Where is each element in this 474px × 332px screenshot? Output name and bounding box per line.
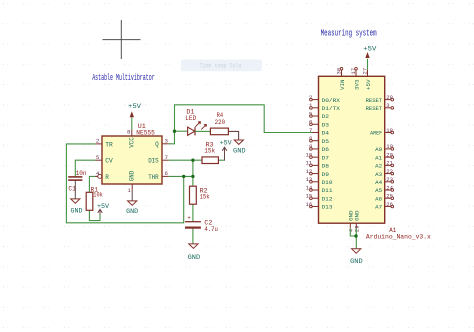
svg-text:6: 6	[309, 119, 312, 126]
svg-text:A3: A3	[375, 171, 383, 178]
svg-text:3: 3	[386, 102, 389, 109]
svg-text:GND: GND	[126, 208, 138, 215]
svg-text:23: 23	[386, 176, 393, 183]
svg-text:220: 220	[215, 119, 226, 126]
svg-text:+5V: +5V	[97, 203, 109, 210]
svg-text:14: 14	[306, 184, 313, 191]
svg-text:15k: 15k	[200, 194, 210, 201]
svg-text:2: 2	[96, 138, 100, 145]
svg-text:+5V: +5V	[365, 79, 372, 90]
svg-text:30: 30	[335, 67, 342, 74]
svg-text:DIS: DIS	[148, 158, 159, 165]
svg-text:A1: A1	[375, 154, 383, 161]
svg-text:10k: 10k	[93, 192, 103, 199]
svg-text:D11: D11	[322, 187, 334, 194]
svg-text:D10: D10	[322, 179, 334, 186]
svg-text:20: 20	[386, 151, 393, 158]
svg-text:24: 24	[386, 184, 393, 191]
svg-text:16: 16	[306, 201, 313, 208]
svg-text:D0/RX: D0/RX	[322, 97, 341, 104]
svg-text:D4: D4	[322, 130, 330, 137]
svg-text:D2: D2	[322, 113, 330, 120]
svg-text:6: 6	[165, 170, 169, 177]
svg-text:12: 12	[306, 168, 313, 175]
svg-text:1: 1	[127, 187, 131, 194]
svg-text:Astable Multivibrator: Astable Multivibrator	[92, 73, 155, 83]
svg-text:4: 4	[96, 170, 100, 177]
svg-text:R4: R4	[217, 112, 224, 119]
svg-text:D5: D5	[322, 138, 330, 145]
svg-text:26: 26	[386, 201, 393, 208]
svg-text:5: 5	[96, 154, 100, 161]
svg-text:GND: GND	[233, 147, 246, 154]
svg-text:D3: D3	[322, 121, 330, 128]
svg-text:17: 17	[350, 68, 357, 75]
svg-text:A4: A4	[375, 179, 383, 186]
svg-text:A2: A2	[375, 163, 383, 170]
svg-text:D12: D12	[322, 195, 334, 202]
svg-text:3: 3	[165, 138, 169, 145]
svg-text:RESET: RESET	[366, 105, 383, 112]
svg-text:22: 22	[386, 168, 393, 175]
svg-text:D7: D7	[322, 154, 330, 161]
svg-text:7: 7	[165, 154, 169, 161]
svg-text:GND: GND	[71, 207, 83, 214]
svg-text:19: 19	[386, 143, 393, 150]
svg-text:CV: CV	[105, 158, 113, 165]
svg-text:11: 11	[306, 160, 313, 167]
svg-text:9: 9	[309, 143, 312, 150]
svg-text:THR: THR	[148, 174, 159, 181]
svg-text:A6: A6	[375, 195, 383, 202]
svg-text:A7: A7	[375, 204, 383, 211]
svg-text:C1: C1	[68, 185, 76, 192]
svg-text:A0: A0	[375, 146, 383, 153]
svg-text:7: 7	[309, 127, 312, 134]
svg-text:R: R	[105, 174, 109, 181]
svg-text:8: 8	[309, 135, 312, 142]
svg-text:15: 15	[306, 193, 313, 200]
svg-text:10: 10	[306, 151, 313, 158]
svg-text:10n: 10n	[76, 170, 87, 177]
svg-text:D9: D9	[322, 171, 330, 178]
svg-text:A5: A5	[375, 187, 383, 194]
svg-text:GND: GND	[188, 254, 201, 261]
svg-text:GND: GND	[350, 258, 363, 265]
svg-text:+5V: +5V	[220, 139, 232, 146]
svg-text:D13: D13	[322, 204, 334, 211]
svg-text:RESET: RESET	[366, 97, 383, 104]
svg-text:13: 13	[306, 176, 313, 183]
svg-text:D1/TX: D1/TX	[322, 105, 341, 112]
svg-text:28: 28	[386, 94, 393, 101]
svg-text:+5V: +5V	[128, 103, 141, 110]
svg-text:VIN: VIN	[339, 79, 346, 90]
svg-text:GND: GND	[129, 170, 136, 181]
svg-text:2: 2	[309, 94, 312, 101]
svg-text:21: 21	[386, 160, 393, 167]
svg-text:LED: LED	[185, 115, 196, 122]
svg-text:GND: GND	[354, 210, 361, 221]
svg-text:D6: D6	[322, 146, 330, 153]
svg-text:5: 5	[309, 110, 312, 117]
svg-text:VCC: VCC	[128, 137, 135, 148]
svg-text:+5V: +5V	[363, 46, 376, 53]
svg-text:18: 18	[386, 127, 393, 134]
svg-text:25: 25	[386, 193, 393, 200]
svg-text:4.7u: 4.7u	[204, 226, 218, 233]
svg-text:15k: 15k	[204, 148, 215, 155]
svg-text:3V3: 3V3	[353, 79, 360, 90]
svg-text:Measuring system: Measuring system	[321, 28, 377, 38]
svg-text:+: +	[187, 214, 191, 221]
svg-text:AREF: AREF	[370, 130, 382, 137]
svg-text:Time temp Sola: Time temp Sola	[200, 63, 242, 71]
svg-text:D8: D8	[322, 163, 330, 170]
svg-text:Arduino_Nano_v3.x: Arduino_Nano_v3.x	[366, 233, 431, 240]
svg-text:8: 8	[127, 128, 131, 135]
svg-text:TR: TR	[105, 141, 113, 148]
svg-text:Q: Q	[155, 141, 159, 148]
svg-text:NE555: NE555	[136, 129, 155, 136]
